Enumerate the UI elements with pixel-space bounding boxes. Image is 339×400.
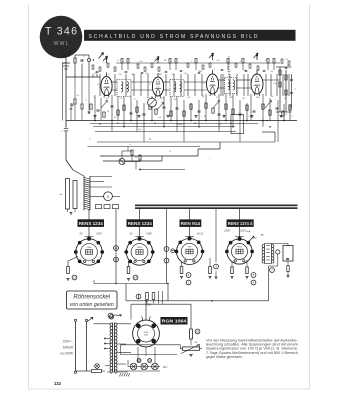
svg-text:19: 19 [110, 315, 113, 319]
svg-text:14: 14 [134, 276, 137, 280]
svg-text:2V: 2V [78, 232, 82, 235]
svg-text:SCHALTBILD UND STROM SPANNUNGS: SCHALTBILD UND STROM SPANNUNGS BILD [89, 34, 258, 40]
svg-text:450: 450 [194, 342, 197, 344]
svg-text:5000: 5000 [178, 124, 184, 126]
svg-text:2M: 2M [249, 116, 252, 118]
svg-text:RGN: RGN [144, 332, 149, 334]
svg-text:13: 13 [115, 246, 118, 250]
svg-text:REN 914: REN 914 [181, 221, 201, 226]
svg-text:12: 12 [73, 276, 76, 280]
svg-text:RENS 1374 d: RENS 1374 d [228, 221, 253, 226]
svg-text:230V: 230V [223, 230, 230, 233]
svg-text:220V: 220V [145, 305, 152, 307]
svg-text:c: c [209, 158, 210, 160]
svg-text:181V: 181V [240, 230, 246, 233]
svg-text:28V: 28V [251, 237, 257, 240]
svg-text:220V~,: 220V~, [61, 340, 73, 344]
svg-text:2: 2 [85, 100, 86, 102]
svg-text:0,1: 0,1 [77, 95, 80, 97]
svg-text:von unten gesehen: von unten gesehen [70, 302, 114, 308]
svg-text:10: 10 [196, 330, 199, 334]
svg-text:4Ω≈: 4Ω≈ [163, 366, 168, 369]
svg-text:2mA: 2mA [246, 230, 251, 233]
svg-text:WWL: WWL [54, 41, 69, 47]
svg-text:180mA: 180mA [63, 346, 74, 350]
svg-text:2V: 2V [128, 232, 132, 235]
svg-text:5: 5 [107, 195, 109, 199]
svg-text:142V: 142V [96, 232, 102, 235]
svg-text:RENS 1234: RENS 1234 [128, 221, 153, 226]
svg-text:gegen Masse gemessen.: gegen Masse gemessen. [206, 355, 243, 359]
svg-text:30: 30 [135, 157, 137, 159]
svg-text:140V: 140V [146, 232, 152, 235]
svg-text:2M: 2M [229, 97, 232, 99]
svg-text:1M: 1M [158, 74, 161, 76]
svg-text:T 346: T 346 [45, 26, 77, 38]
svg-text:15: 15 [138, 359, 141, 363]
svg-text:ca.100W: ca.100W [60, 352, 74, 356]
svg-text:1M: 1M [146, 97, 149, 99]
svg-text:15: 15 [115, 258, 118, 262]
svg-text:16: 16 [148, 359, 151, 363]
svg-text:14,2V: 14,2V [197, 232, 204, 235]
svg-text:RENS 1234: RENS 1234 [79, 221, 104, 226]
svg-text:122: 122 [54, 381, 62, 386]
svg-text:RGN 1064: RGN 1064 [162, 319, 187, 324]
svg-text:Röhrensockel: Röhrensockel [73, 294, 110, 300]
